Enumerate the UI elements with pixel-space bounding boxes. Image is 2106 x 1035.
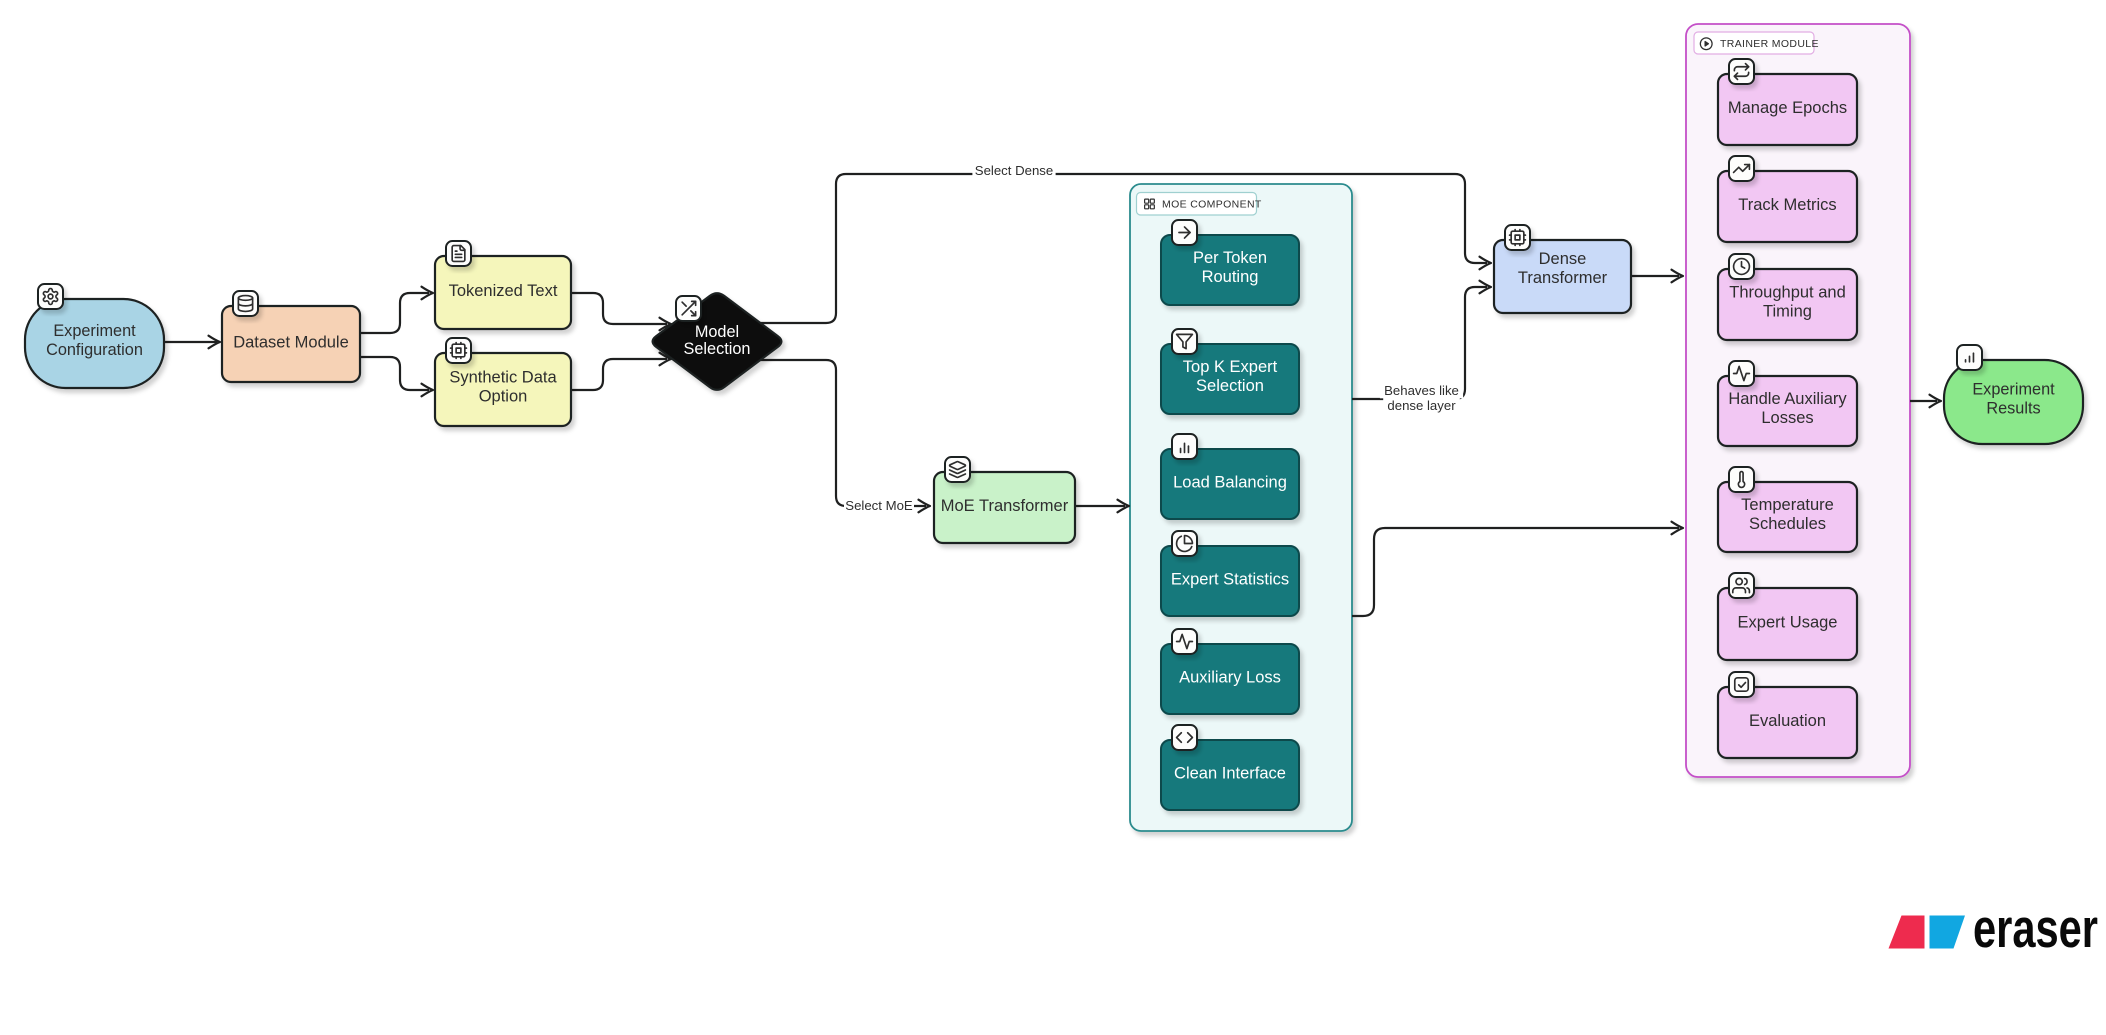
svg-text:MoE Transformer: MoE Transformer: [941, 497, 1069, 515]
svg-text:TRAINER MODULE: TRAINER MODULE: [1720, 38, 1819, 50]
svg-text:Behaves like: Behaves like: [1384, 383, 1459, 398]
svg-text:Load Balancing: Load Balancing: [1173, 474, 1287, 492]
svg-text:Per TokenRouting: Per TokenRouting: [1193, 249, 1267, 286]
svg-text:Dataset Module: Dataset Module: [233, 334, 349, 352]
svg-text:Track Metrics: Track Metrics: [1738, 196, 1836, 214]
svg-text:TemperatureSchedules: TemperatureSchedules: [1741, 496, 1834, 533]
svg-text:dense layer: dense layer: [1387, 398, 1456, 413]
svg-text:Evaluation: Evaluation: [1749, 712, 1826, 730]
svg-text:Tokenized Text: Tokenized Text: [449, 282, 558, 300]
svg-text:eraser: eraser: [1973, 897, 2098, 959]
svg-text:MOE COMPONENT: MOE COMPONENT: [1162, 199, 1262, 211]
svg-text:Top K ExpertSelection: Top K ExpertSelection: [1183, 358, 1278, 395]
svg-text:Auxiliary Loss: Auxiliary Loss: [1179, 669, 1281, 687]
svg-text:Expert Usage: Expert Usage: [1738, 614, 1838, 632]
svg-text:Manage Epochs: Manage Epochs: [1728, 99, 1847, 117]
svg-text:Expert Statistics: Expert Statistics: [1171, 571, 1289, 589]
svg-text:ExperimentConfiguration: ExperimentConfiguration: [46, 322, 143, 359]
svg-text:Clean Interface: Clean Interface: [1174, 765, 1286, 783]
svg-text:Select Dense: Select Dense: [975, 163, 1053, 178]
svg-text:Select MoE: Select MoE: [845, 498, 913, 513]
